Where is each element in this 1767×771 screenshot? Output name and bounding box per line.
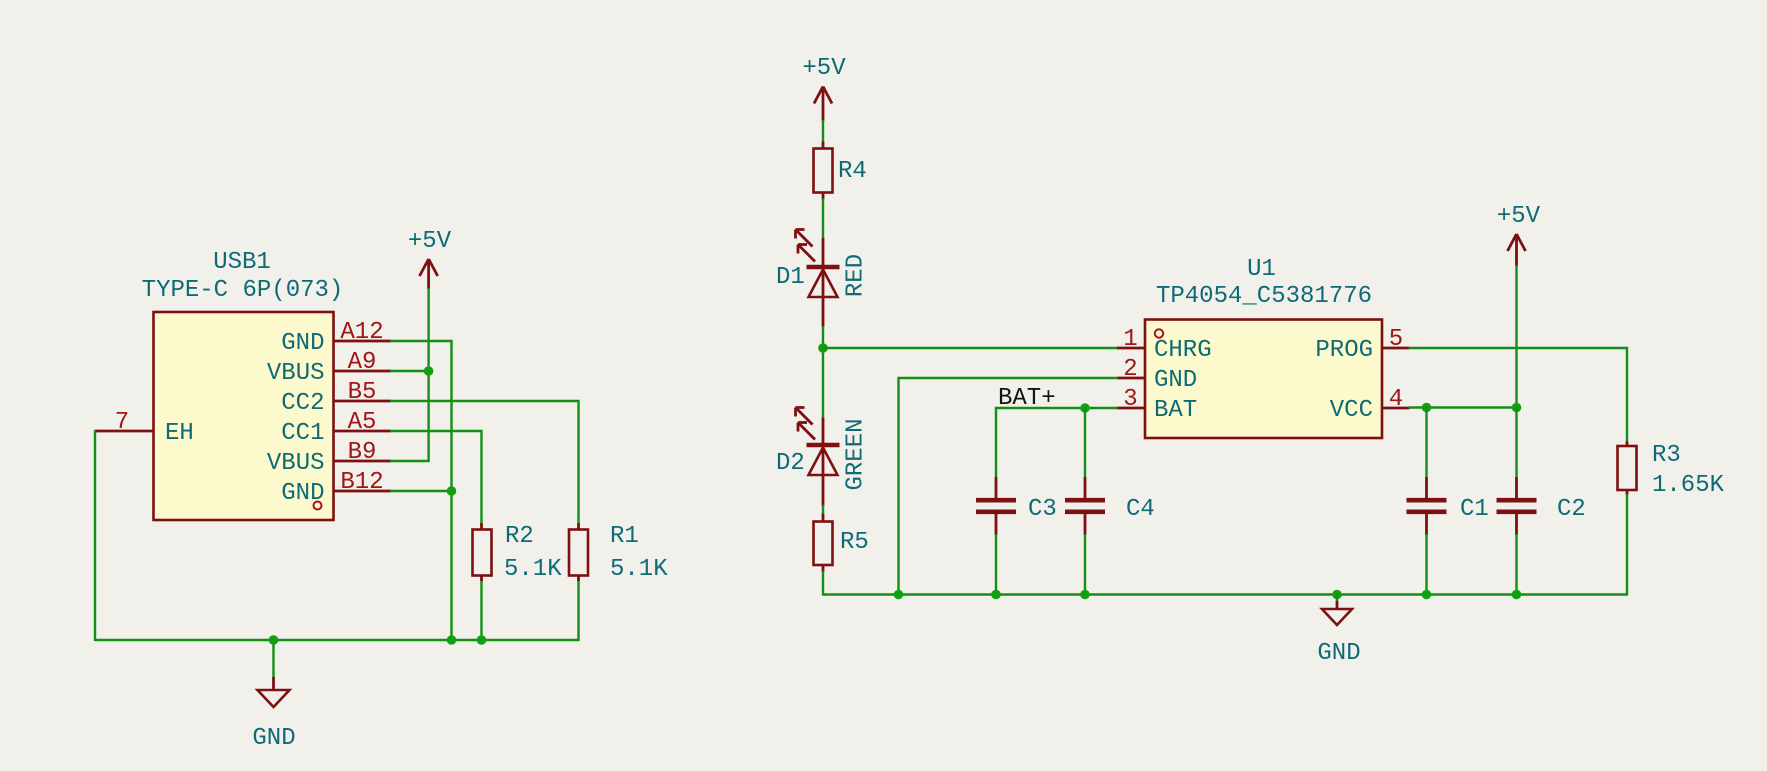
svg-text:D1: D1: [776, 264, 805, 291]
junction GND rail: [269, 635, 279, 645]
wire C1 top: [1425, 408, 1427, 478]
resistor R3: [1618, 442, 1637, 496]
svg-text:B12: B12: [340, 469, 383, 496]
svg-text:+5V: +5V: [1497, 203, 1541, 230]
svg-text:CC2: CC2: [281, 390, 324, 417]
wire R1 bottom to rail: [577, 581, 579, 640]
svg-text:TP4054_C5381776: TP4054_C5381776: [1156, 283, 1372, 310]
svg-text:3: 3: [1123, 386, 1137, 413]
wire +5V column: [427, 289, 429, 461]
svg-text:B9: B9: [348, 439, 377, 466]
capacitor C4: [1065, 477, 1105, 535]
svg-text:VCC: VCC: [1330, 397, 1373, 424]
svg-text:C4: C4: [1126, 496, 1155, 523]
LEFT CIRCUIT: [95, 228, 668, 752]
USB1 symbol polarity circle: [314, 502, 322, 510]
svg-text:GND: GND: [252, 725, 295, 752]
svg-text:CC1: CC1: [281, 420, 324, 447]
wire A9 VBUS to +5V: [391, 370, 429, 372]
resistor R2: [473, 523, 492, 581]
junction CHRG node: [818, 343, 828, 353]
wire +5V right column: [1515, 266, 1517, 408]
svg-text:R4: R4: [838, 158, 867, 185]
svg-text:7: 7: [115, 409, 129, 436]
junction A9/+5V: [424, 366, 434, 376]
svg-text:PROG: PROG: [1315, 337, 1373, 364]
power symbol +5V (right): [1497, 203, 1541, 266]
svg-text:TYPE-C 6P(073): TYPE-C 6P(073): [142, 277, 344, 304]
junction rail GND: [1332, 590, 1342, 600]
svg-text:RED: RED: [843, 254, 870, 297]
USB1 pin B5 stub: [334, 400, 392, 403]
USB1 pin 7 stub: [95, 430, 154, 433]
junction rail C2: [1512, 590, 1522, 600]
svg-text:GND: GND: [281, 480, 324, 507]
svg-text:R2: R2: [505, 523, 534, 550]
svg-text:R5: R5: [840, 529, 869, 556]
svg-text:R1: R1: [610, 523, 639, 550]
power symbol +5V (middle): [802, 55, 846, 121]
wire B12 GND: [391, 490, 452, 492]
ground symbol GND (right): [1322, 595, 1352, 626]
svg-text:U1: U1: [1247, 256, 1276, 283]
svg-text:5: 5: [1389, 326, 1403, 353]
wire C3 to rail: [995, 535, 997, 595]
U1 pin 1 marker circle: [1155, 329, 1163, 337]
wire C2 top: [1515, 408, 1517, 478]
resistor R5: [814, 514, 833, 573]
junction B12/A12: [447, 486, 457, 496]
USB1 pin A9 stub: [334, 370, 392, 373]
USB1 pin B12 stub: [334, 490, 392, 493]
svg-text:EH: EH: [165, 420, 194, 447]
connector USB1 body: [154, 312, 334, 520]
wire A12 GND to vertical: [391, 341, 452, 640]
svg-text:5.1K: 5.1K: [504, 556, 562, 583]
wire C4 top: [1084, 408, 1086, 477]
U1 pin 4 stub: [1382, 407, 1410, 410]
svg-text:2: 2: [1123, 356, 1137, 383]
svg-text:C3: C3: [1028, 496, 1057, 523]
wire R4 to D1: [822, 200, 824, 239]
wire C2 to rail: [1515, 535, 1517, 595]
LED D2: [796, 408, 840, 507]
USB1 pin B9 stub: [334, 460, 392, 463]
LED D1: [796, 230, 840, 328]
USB1 pin A12 stub: [334, 340, 392, 343]
svg-text:A9: A9: [348, 349, 377, 376]
svg-text:C2: C2: [1557, 496, 1586, 523]
wire C1 to rail: [1425, 535, 1427, 595]
wire U1 PROG pin 5 to R3: [1410, 348, 1628, 442]
svg-text:+5V: +5V: [802, 55, 846, 82]
wire GND drop: [272, 640, 274, 677]
wire U1 BAT pin 3: [996, 408, 1117, 477]
U1 pin 2 stub: [1117, 377, 1145, 380]
svg-text:B5: B5: [348, 379, 377, 406]
svg-text:GND: GND: [1154, 367, 1197, 394]
wire R5 to rail: [822, 572, 824, 595]
junction rail C1: [1422, 590, 1432, 600]
junction BAT/C4: [1080, 403, 1090, 413]
junction rail C4: [1080, 590, 1090, 600]
junction rail A12: [447, 635, 457, 645]
RIGHT CIRCUIT: [776, 55, 1725, 667]
svg-text:R3: R3: [1652, 442, 1681, 469]
power symbol +5V (left): [408, 228, 452, 289]
junction rail pin2: [894, 590, 904, 600]
junction VCC C1: [1422, 403, 1432, 413]
capacitor C1: [1407, 477, 1447, 535]
svg-text:A5: A5: [348, 409, 377, 436]
svg-text:GREEN: GREEN: [843, 418, 870, 490]
svg-text:CHRG: CHRG: [1154, 337, 1212, 364]
svg-text:VBUS: VBUS: [267, 360, 325, 387]
ground symbol GND (left): [258, 677, 290, 707]
svg-text:GND: GND: [1317, 640, 1360, 667]
svg-text:USB1: USB1: [213, 249, 271, 276]
U1 pin 5 stub: [1382, 347, 1410, 350]
svg-text:BAT+: BAT+: [998, 385, 1056, 412]
svg-text:1: 1: [1123, 326, 1137, 353]
capacitor C2: [1497, 477, 1537, 535]
junction rail C3: [991, 590, 1001, 600]
svg-text:4: 4: [1389, 386, 1403, 413]
wire U1 GND pin 2: [899, 378, 1118, 595]
svg-text:5.1K: 5.1K: [610, 556, 668, 583]
wire bottom rail left: [95, 639, 579, 641]
svg-text:+5V: +5V: [408, 228, 452, 255]
capacitor C3: [976, 477, 1016, 535]
resistor R4: [814, 142, 833, 200]
wire U1 VCC pin 4: [1410, 406, 1517, 408]
svg-text:GND: GND: [281, 330, 324, 357]
wire D2 to R5: [822, 506, 824, 514]
U1 pin 1 stub: [1117, 347, 1145, 350]
wire R2 bottom to rail: [480, 581, 482, 640]
wire C4 to rail: [1084, 535, 1086, 595]
junction VCC +5V: [1512, 403, 1522, 413]
svg-text:BAT: BAT: [1154, 397, 1197, 424]
wire CHRG to U1 pin 1: [823, 347, 1117, 349]
wire B5 CC2 to R1: [391, 401, 579, 523]
IC U1 body: [1145, 320, 1382, 439]
USB1 pin A5 stub: [334, 430, 392, 433]
wire B9 VBUS: [391, 460, 429, 462]
svg-text:VBUS: VBUS: [267, 450, 325, 477]
svg-text:C1: C1: [1460, 496, 1489, 523]
U1 pin 3 stub: [1117, 407, 1145, 410]
svg-text:1.65K: 1.65K: [1652, 472, 1725, 499]
svg-text:A12: A12: [340, 319, 383, 346]
junction rail R2: [477, 635, 487, 645]
wire D1 to D2: [822, 327, 824, 418]
wire +5V to R4: [822, 121, 824, 142]
wire EH vertical: [94, 431, 96, 640]
wire A5 CC1 to R2: [391, 431, 482, 523]
resistor R1: [569, 523, 588, 581]
svg-text:D2: D2: [776, 450, 805, 477]
wire R3 to rail: [1626, 495, 1628, 595]
wire bottom rail right: [823, 593, 1627, 595]
